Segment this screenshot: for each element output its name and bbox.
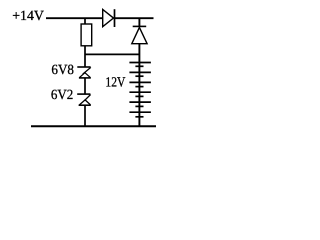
wire left branch vertical bbox=[84, 18, 86, 24]
diode D1 bbox=[103, 9, 115, 27]
wire diode D2 to battery (through mid-rail junction) bbox=[138, 44, 140, 127]
zener Z1 6V8 bbox=[77, 67, 91, 78]
wire zener2 to bottom rail bbox=[84, 105, 86, 126]
svg-text:12V: 12V bbox=[105, 75, 125, 90]
svg-text:6V8: 6V8 bbox=[51, 63, 74, 78]
wire top rail bbox=[46, 17, 154, 19]
wire mid rail bbox=[85, 53, 139, 55]
battery BT 12V (6 cells) bbox=[129, 63, 151, 117]
svg-text:6V2: 6V2 bbox=[51, 88, 73, 103]
resistor R bbox=[81, 24, 92, 46]
wire zener1 to zener2 bbox=[84, 78, 86, 94]
svg-text:+14V: +14V bbox=[12, 9, 44, 24]
wire right branch top bbox=[138, 18, 140, 26]
wire bottom rail bbox=[31, 125, 156, 127]
zener Z2 6V2 bbox=[77, 94, 91, 105]
diode D2 bbox=[132, 26, 147, 43]
wire resistor to zener 1 (through mid-rail junction) bbox=[84, 46, 86, 67]
